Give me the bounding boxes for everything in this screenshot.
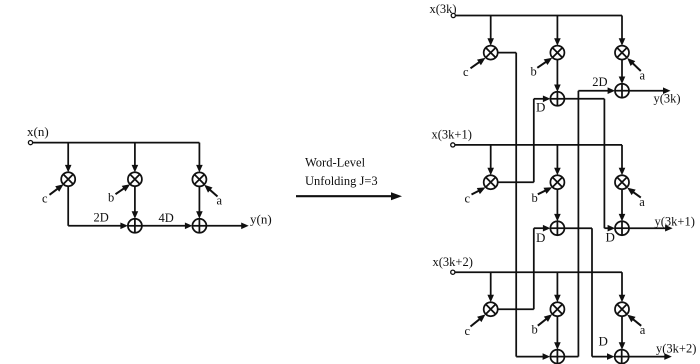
- svg-text:D: D: [606, 230, 615, 245]
- wire: adder b1 out right then down into adder a2 (D path): [564, 98, 604, 100]
- wire: multiplier b1 down into adder b1: [556, 60, 558, 86]
- multiplier a3: [615, 302, 629, 316]
- svg-text:y(3k): y(3k): [654, 91, 681, 105]
- wire: drop into multiplier a1: [621, 16, 623, 40]
- wire: multiplier b2 down into adder b2: [556, 189, 558, 215]
- wire: adder a1 output to y(3k): [629, 90, 664, 92]
- adder1 left: [128, 219, 142, 233]
- arrow a into multiplier a1: [632, 62, 641, 71]
- arrow c into multiplier c2: [472, 190, 481, 194]
- input node x(3k+2): [451, 270, 455, 274]
- wire: multiplier c1 out right then down to row3 adder: [498, 52, 517, 54]
- multiplier c1: [484, 46, 498, 60]
- adder a2: [615, 221, 629, 235]
- svg-text:c: c: [465, 191, 471, 205]
- wire: multiplier a1 down into adder a1: [621, 60, 623, 78]
- svg-text:Unfolding J=3: Unfolding J=3: [305, 174, 378, 188]
- svg-text:2D: 2D: [94, 211, 109, 225]
- wire: x(n) top bus: [33, 142, 200, 144]
- wire: drop into multiplier c3: [490, 272, 492, 296]
- wire: multiplier c out via 2D to adder1: [67, 186, 69, 226]
- input node x(3k): [451, 13, 455, 17]
- arrow a into multiplier left: [209, 189, 218, 197]
- arrow a into multiplier a2: [632, 191, 641, 197]
- multiplier b3: [550, 302, 564, 316]
- arrow b into multiplier left: [116, 188, 126, 195]
- svg-text:c: c: [463, 65, 469, 79]
- svg-text:x(3k+1): x(3k+1): [432, 128, 472, 142]
- input node x(n): [28, 141, 32, 145]
- wire: drop into multiplier b left: [134, 143, 136, 167]
- multiplier a2: [615, 175, 629, 189]
- wire: drop into multiplier b2: [556, 145, 558, 169]
- arrow b into multiplier b3: [538, 318, 548, 326]
- svg-text:c: c: [465, 324, 471, 338]
- wire: adder b2 out right then down into adder a3 (D path): [564, 227, 592, 229]
- wire: x(3k+2) bus: [455, 271, 622, 273]
- svg-text:4D: 4D: [159, 211, 174, 225]
- wire: multiplier a3 down into adder a3: [621, 316, 623, 344]
- wire: drop into multiplier c2: [490, 145, 492, 169]
- adder2 left: [192, 219, 206, 233]
- svg-text:b: b: [108, 191, 114, 205]
- wire: adder2 output to y(n): [206, 225, 242, 227]
- arrow c into multiplier c3: [471, 318, 481, 326]
- wire: adder b3 out right then up into adder a1 (2D path): [564, 356, 578, 358]
- multiplier b2: [550, 175, 564, 189]
- svg-text:y(3k+1): y(3k+1): [655, 215, 695, 229]
- svg-text:D: D: [536, 100, 545, 115]
- wire: multiplier a down into adder2: [198, 186, 200, 213]
- svg-text:b: b: [531, 64, 537, 78]
- svg-text:D: D: [599, 334, 608, 349]
- svg-text:c: c: [42, 192, 48, 206]
- wire: drop into multiplier b3: [556, 272, 558, 296]
- wire: drop into multiplier a3: [621, 272, 623, 296]
- wire: adder a2 output to y(3k+1): [629, 227, 666, 229]
- wire: multiplier b down into adder1: [134, 186, 136, 213]
- svg-text:x(n): x(n): [27, 124, 49, 139]
- arrow b into multiplier b1: [537, 61, 547, 68]
- transform arrow: [296, 195, 392, 197]
- wire: multiplier a2 down into adder a2: [621, 189, 623, 215]
- arrow b into multiplier b2: [538, 190, 547, 194]
- svg-text:b: b: [532, 191, 538, 205]
- svg-text:x(3k+2): x(3k+2): [433, 255, 473, 269]
- wire: x(3k+1) bus: [455, 144, 622, 146]
- adder b3: [550, 350, 564, 364]
- wire: drop into multiplier a left: [198, 143, 200, 167]
- svg-text:b: b: [532, 323, 538, 337]
- wire: multiplier c2 out right then up into adder b1 (D path): [498, 181, 534, 183]
- svg-text:Word-Level: Word-Level: [305, 156, 366, 170]
- wire: drop into multiplier c left: [67, 143, 69, 167]
- multiplier c3: [484, 302, 498, 316]
- wire: adder1 via 4D to adder2: [142, 225, 186, 227]
- wire: drop into multiplier b1: [556, 16, 558, 40]
- multiplier b left: [128, 172, 142, 186]
- wire: adder a3 output to y(3k+2): [629, 356, 666, 358]
- svg-text:y(3k+2): y(3k+2): [656, 342, 696, 356]
- adder a3: [615, 350, 629, 364]
- adder b1: [550, 92, 564, 106]
- multiplier a1: [615, 46, 629, 60]
- wire: x(3k) bus: [455, 15, 622, 17]
- input node x(3k+1): [451, 143, 455, 147]
- svg-text:2D: 2D: [592, 75, 607, 89]
- svg-text:D: D: [536, 230, 545, 245]
- wire: multiplier b3 down into adder b3: [556, 316, 558, 344]
- arrow c into multiplier left: [50, 188, 59, 195]
- adder b2: [550, 221, 564, 235]
- multiplier a left: [192, 172, 206, 186]
- multiplier c left: [61, 172, 75, 186]
- wire: drop into multiplier a2: [621, 145, 623, 169]
- multiplier c2: [484, 175, 498, 189]
- svg-text:y(n): y(n): [250, 212, 272, 227]
- adder a1: [615, 84, 629, 98]
- wire: drop into multiplier c1: [490, 16, 492, 40]
- arrow c into multiplier c1: [471, 61, 481, 68]
- arrow a into multiplier a3: [632, 318, 641, 326]
- wire: multiplier c3 out right then up into adder b2 (D path): [498, 308, 534, 310]
- multiplier b1: [550, 46, 564, 60]
